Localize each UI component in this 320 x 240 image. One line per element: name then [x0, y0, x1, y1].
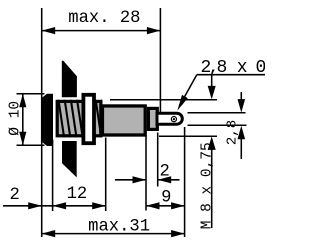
- panel upper piece: [62, 61, 77, 98]
- extension: body rear face: [145, 136, 147, 211]
- dimension 2 (step length): [115, 163, 180, 184]
- svg-text:2: 2: [160, 163, 170, 182]
- hole center dot: [173, 118, 175, 120]
- hex nut: [83, 95, 94, 143]
- svg-text:Ø 10: Ø 10: [8, 101, 24, 136]
- extension: terminal end: [184, 127, 186, 237]
- flange (front bezel head): [42, 94, 53, 146]
- terminal (flat tab, rounded end): [157, 113, 182, 124]
- svg-text:max. 28: max. 28: [68, 9, 140, 28]
- extension: step end: [157, 133, 159, 187]
- M8 dimension line with outside arrows: [208, 75, 216, 228]
- thread hatching: [58, 98, 107, 138]
- dimension max. 28: [42, 9, 161, 34]
- extension line: max.28 right reference: [159, 8, 161, 112]
- svg-text:M 8 x 0,75: M 8 x 0,75: [200, 142, 216, 229]
- dimension 9: [146, 188, 185, 209]
- threaded bushing: [57, 101, 101, 135]
- extension: body front face: [105, 138, 107, 212]
- M8 extension line top: [110, 99, 217, 101]
- svg-text:12: 12: [67, 185, 88, 204]
- body (housing): [102, 106, 145, 135]
- svg-text:max.31: max.31: [88, 217, 150, 236]
- step (small cylinder): [148, 108, 157, 129]
- dimension max. 31: [42, 217, 185, 237]
- svg-text:2: 2: [10, 186, 20, 205]
- panel lower piece: [62, 141, 77, 177]
- extension line: flange front face (left reference): [41, 8, 43, 237]
- terminal bottom extension: [188, 124, 247, 126]
- dimension row: 2 / 12: [3, 185, 106, 210]
- M8 extension line bottom: [159, 135, 217, 137]
- dimension O 10: [8, 94, 45, 145]
- leader 2,8 x 0,8: [177, 58, 288, 110]
- svg-text:9: 9: [161, 188, 171, 207]
- terminal hole: [171, 117, 176, 122]
- svg-text:2,8: 2,8: [224, 120, 240, 145]
- extension: panel rear face: [52, 140, 54, 212]
- terminal top extension: [188, 112, 246, 114]
- dimension 2,8 (terminal) with outside arrows: [238, 92, 246, 159]
